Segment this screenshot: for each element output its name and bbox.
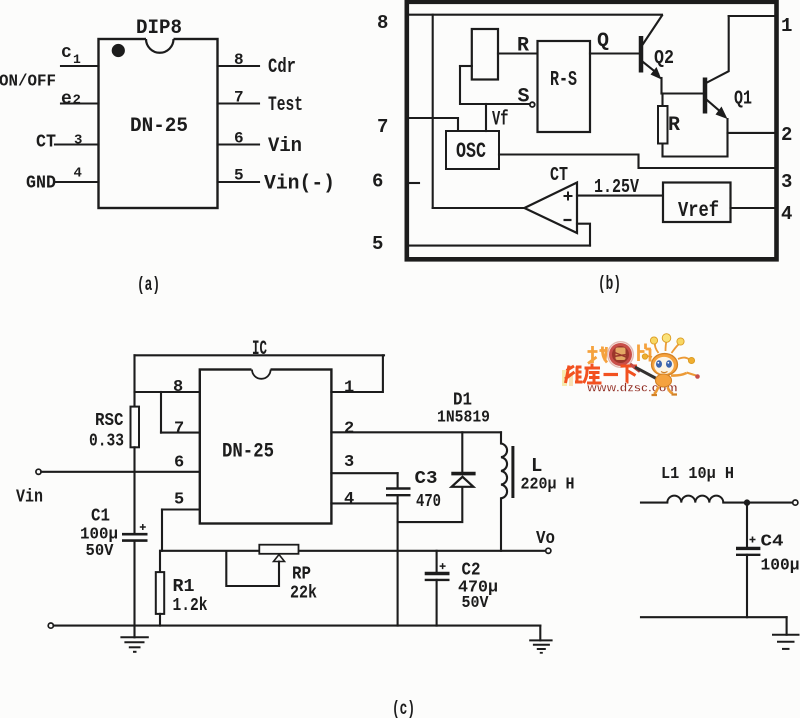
wire: pin 5 vertical down to feedback rail bbox=[161, 510, 163, 551]
transistor Q2 base bar bbox=[639, 36, 644, 73]
svg-text:(c): (c) bbox=[392, 698, 415, 718]
wire: C2 bottom bbox=[436, 580, 438, 626]
wire: top rail to pin 1 bbox=[729, 15, 774, 17]
watermark magnifier ring bbox=[608, 342, 634, 368]
terminal bottom left bbox=[48, 623, 53, 628]
resistor R (internal) bbox=[658, 106, 668, 144]
wire: OSC output to pin 3 bbox=[499, 155, 774, 169]
svg-text:6: 6 bbox=[174, 454, 184, 473]
wire: ground node to diode anode bbox=[398, 488, 463, 522]
svg-text:R: R bbox=[668, 114, 680, 137]
block (current limit) small rectangle bbox=[472, 29, 498, 80]
mascot eyes bbox=[656, 360, 662, 367]
comparator - input sign bbox=[564, 219, 572, 221]
svg-text:L1 10μ H: L1 10μ H bbox=[661, 465, 734, 484]
svg-text:C4: C4 bbox=[761, 533, 784, 552]
wire: pin 7 stub bbox=[161, 432, 200, 434]
wire: Q output to Q2 base bbox=[590, 52, 638, 54]
svg-text:C3: C3 bbox=[415, 469, 438, 489]
inductor L1 bbox=[667, 496, 723, 503]
resistor RSC bbox=[131, 407, 140, 448]
svg-text:0.33: 0.33 bbox=[89, 432, 124, 452]
wire: node down to resistor R bbox=[661, 94, 663, 107]
svg-text:50V: 50V bbox=[86, 542, 115, 561]
wire: filter top right bbox=[723, 502, 792, 504]
watermark red text wei bbox=[565, 366, 583, 384]
svg-text:50V: 50V bbox=[462, 594, 490, 613]
inductor L bbox=[500, 432, 502, 443]
svg-text:1.25V: 1.25V bbox=[594, 176, 639, 198]
watermark chip in magnifier bbox=[616, 348, 626, 361]
wire: pin 5 rail bbox=[409, 245, 590, 247]
transistor Q1 base bar bbox=[703, 78, 708, 114]
svg-text:Vin(-): Vin(-) bbox=[264, 173, 335, 196]
mascot body bbox=[656, 374, 672, 387]
svg-text:R-S: R-S bbox=[550, 69, 577, 92]
svg-text:R: R bbox=[517, 35, 529, 58]
wire: C2 top bbox=[436, 551, 438, 573]
wire: pin 2 line to inductor bbox=[331, 431, 501, 433]
wire: left vertical from top rail down to RSC bbox=[133, 355, 135, 406]
svg-text:RSC: RSC bbox=[95, 411, 124, 431]
RP wiper arrow bbox=[274, 555, 285, 562]
svg-text:ON/OFF: ON/OFF bbox=[0, 73, 56, 92]
transistor Q1 collector bbox=[707, 16, 729, 83]
Vref box bbox=[663, 183, 731, 223]
svg-text:(b): (b) bbox=[598, 273, 621, 295]
R-S flip-flop box bbox=[538, 41, 591, 132]
svg-text:2: 2 bbox=[344, 420, 354, 439]
svg-text:6: 6 bbox=[234, 130, 244, 148]
svg-text:4: 4 bbox=[74, 166, 82, 182]
wire: C3 bottom through pin4 node down to ground rail bbox=[397, 495, 399, 625]
wire: pin 5 stub bbox=[162, 508, 200, 510]
capacitor C2 bbox=[425, 572, 450, 576]
capacitor C1 bbox=[122, 533, 148, 536]
wire: bottom ground rail bbox=[54, 625, 541, 627]
wire: top rail of (c) bbox=[135, 354, 385, 356]
svg-text:1: 1 bbox=[781, 15, 792, 37]
notch bbox=[252, 367, 271, 372]
oscillator OSC box bbox=[446, 131, 499, 169]
svg-text:1N5819: 1N5819 bbox=[437, 409, 490, 428]
svg-text:100μ: 100μ bbox=[761, 557, 800, 576]
wire: RP wiper loop bbox=[226, 551, 279, 586]
IC DN-25 box bbox=[200, 370, 332, 524]
svg-text:2: 2 bbox=[73, 93, 81, 109]
wire: vertical joining pin8 and pin7 stubs bbox=[160, 392, 162, 433]
transistor Q1 emitter with arrow bbox=[707, 100, 722, 113]
node S bubble bbox=[530, 102, 535, 107]
wire: comparator output to apex bbox=[433, 207, 525, 209]
svg-text:Test: Test bbox=[268, 94, 303, 117]
svg-text:220μ H: 220μ H bbox=[521, 476, 575, 495]
svg-text:Vo: Vo bbox=[536, 529, 555, 549]
wire: R1 top bbox=[159, 551, 161, 572]
wire: R bottom to Q1 emitter node bbox=[663, 119, 728, 157]
svg-text:8: 8 bbox=[234, 51, 244, 69]
wire: pin 7 into OSC bbox=[407, 118, 458, 131]
ground symbol right bbox=[539, 626, 541, 641]
svg-text:C2: C2 bbox=[462, 561, 481, 581]
watermark red text ku bbox=[584, 364, 602, 384]
svg-text:6: 6 bbox=[372, 171, 383, 193]
svg-text:3: 3 bbox=[74, 133, 82, 149]
comparator CT triangle bbox=[524, 183, 577, 234]
svg-text:7: 7 bbox=[234, 89, 244, 107]
diode D1 1N5819 bbox=[461, 432, 463, 473]
svg-text:3: 3 bbox=[344, 453, 354, 472]
wire: L bottom to Vo rail bbox=[500, 498, 502, 551]
potentiometer RP body bbox=[259, 545, 298, 554]
resistor R1 bbox=[156, 572, 164, 614]
svg-text:22k: 22k bbox=[290, 584, 317, 604]
ground symbol main bbox=[133, 626, 135, 638]
wire: pin 1 stub up to top rail bbox=[331, 355, 383, 392]
svg-text:8: 8 bbox=[173, 378, 183, 397]
transistor Q2 emitter with arrow bbox=[643, 62, 658, 74]
wire: filter top left bbox=[641, 502, 667, 504]
mascot arm right bbox=[671, 373, 687, 376]
wire: Vf vertical from OSC up to S line bbox=[485, 104, 487, 131]
wire: pin3 down to C3 bbox=[397, 473, 399, 488]
svg-text:7: 7 bbox=[174, 420, 184, 439]
wire: pin 4 stub bbox=[331, 502, 397, 504]
wire: Vref to pin 4 bbox=[731, 207, 775, 209]
pin 8 wire bbox=[218, 65, 260, 67]
watermark glyph zhao (orange) bbox=[588, 346, 608, 364]
capacitor C3 bbox=[386, 487, 411, 489]
svg-text:4: 4 bbox=[781, 203, 792, 225]
svg-text:R1: R1 bbox=[173, 577, 195, 597]
pin 1 wire bbox=[61, 65, 99, 67]
svg-text:5: 5 bbox=[234, 167, 244, 185]
transistor Q2 collector bbox=[643, 16, 662, 45]
svg-text:DN-25: DN-25 bbox=[222, 441, 274, 464]
svg-text:OSC: OSC bbox=[456, 139, 486, 164]
pin 4 wire bbox=[55, 181, 99, 183]
watermark red text xia bbox=[621, 366, 638, 384]
capacitor C4 bbox=[736, 547, 760, 550]
mascot head bbox=[652, 354, 678, 376]
terminal Vo bbox=[546, 548, 551, 553]
svg-text:S: S bbox=[518, 86, 530, 109]
wire: - input step to pin 5 rail bbox=[577, 224, 590, 246]
svg-text:5: 5 bbox=[174, 491, 184, 510]
wire: R line from block to R-S bbox=[498, 52, 538, 54]
node junction dot bbox=[744, 499, 750, 505]
pin 6 stub bbox=[409, 182, 419, 184]
svg-text:7: 7 bbox=[377, 116, 388, 138]
IC package DN-25 body bbox=[99, 39, 218, 208]
wire: Q2 emitter down bbox=[660, 78, 662, 94]
mascot antenna balls bbox=[650, 337, 657, 344]
terminal Vin bbox=[36, 469, 41, 474]
svg-text:Vf: Vf bbox=[492, 109, 509, 132]
svg-text:L: L bbox=[531, 455, 542, 477]
svg-text:Vin: Vin bbox=[16, 488, 43, 508]
wire: C1 bottom to ground rail bbox=[133, 541, 135, 626]
pin 7 wire bbox=[218, 102, 260, 104]
wire: to ground right bbox=[786, 617, 788, 635]
wire: C4 bottom bbox=[746, 555, 748, 617]
svg-text:8: 8 bbox=[377, 12, 388, 34]
wire: Vo/feedback rail bbox=[160, 550, 545, 552]
svg-text:IC: IC bbox=[252, 338, 267, 361]
svg-text:Q: Q bbox=[597, 30, 609, 53]
svg-text:(a): (a) bbox=[137, 274, 160, 296]
svg-text:1: 1 bbox=[344, 379, 354, 398]
comparator + input sign bbox=[564, 192, 573, 201]
mascot antennae bbox=[646, 341, 690, 360]
wire: RSC bottom down to C1 bbox=[133, 447, 135, 533]
svg-text:Q1: Q1 bbox=[734, 88, 752, 110]
ground symbol filter bbox=[772, 634, 800, 636]
capacitor C1 plus sign bbox=[140, 524, 146, 530]
wire: pin 8 stub bbox=[135, 391, 200, 393]
wire: node to Q1 base bbox=[662, 92, 704, 94]
svg-text:DN-25: DN-25 bbox=[130, 115, 188, 138]
capacitor C4 plus sign bbox=[750, 537, 756, 543]
svg-text:3: 3 bbox=[781, 171, 792, 193]
wire: R1 bottom bbox=[159, 614, 161, 626]
capacitor C2 plus sign bbox=[440, 563, 446, 569]
svg-text:5: 5 bbox=[372, 233, 383, 255]
svg-text:CT: CT bbox=[36, 133, 56, 153]
notch bbox=[146, 37, 174, 42]
wire: pin 2 line bbox=[728, 132, 775, 134]
watermark shadow bbox=[562, 370, 567, 386]
wire: + input from Vref bbox=[577, 195, 663, 197]
wire: C4 top bbox=[746, 503, 748, 548]
svg-text:Vin: Vin bbox=[268, 135, 302, 158]
svg-text:Q2: Q2 bbox=[654, 47, 674, 69]
svg-text:e: e bbox=[61, 90, 72, 110]
pin 3 wire bbox=[55, 143, 99, 145]
pin1 index dot bbox=[112, 44, 125, 57]
wire: inner top rail from pin8 side bbox=[407, 14, 662, 16]
wire: S input line with left step to block bbox=[460, 66, 529, 104]
mascot legs bbox=[654, 387, 673, 395]
watermark red text yi bbox=[604, 373, 619, 376]
wire: vertical from top rail down to comparator output bbox=[432, 15, 434, 208]
outer border of IC block diagram bbox=[407, 2, 777, 260]
wire: filter bottom rail bbox=[641, 616, 787, 618]
svg-text:CT: CT bbox=[550, 164, 568, 186]
wire: Vin line to pin 6 bbox=[41, 471, 200, 473]
watermark glyph pian (orange) bbox=[639, 344, 652, 362]
svg-text:D1: D1 bbox=[453, 391, 472, 411]
svg-text:1: 1 bbox=[73, 52, 81, 67]
pin 5 wire bbox=[218, 181, 260, 183]
svg-text:1.2k: 1.2k bbox=[173, 596, 208, 616]
svg-text:Cdr: Cdr bbox=[268, 56, 296, 79]
terminal right bbox=[793, 500, 798, 505]
pin 2 wire bbox=[61, 102, 99, 104]
wire: into block left bbox=[460, 65, 472, 67]
svg-text:Vref: Vref bbox=[678, 200, 719, 223]
svg-text:RP: RP bbox=[292, 565, 311, 585]
svg-text:2: 2 bbox=[781, 124, 792, 146]
svg-text:c: c bbox=[61, 43, 72, 63]
svg-text:C1: C1 bbox=[91, 507, 110, 527]
svg-text:4: 4 bbox=[344, 490, 354, 509]
wire: pin 3 stub bbox=[331, 472, 397, 474]
svg-text:470: 470 bbox=[416, 492, 441, 512]
mascot pen bbox=[634, 367, 660, 381]
pin 6 wire bbox=[218, 143, 260, 145]
svg-text:GND: GND bbox=[26, 174, 56, 194]
watermark magnifier handle bbox=[630, 364, 640, 372]
